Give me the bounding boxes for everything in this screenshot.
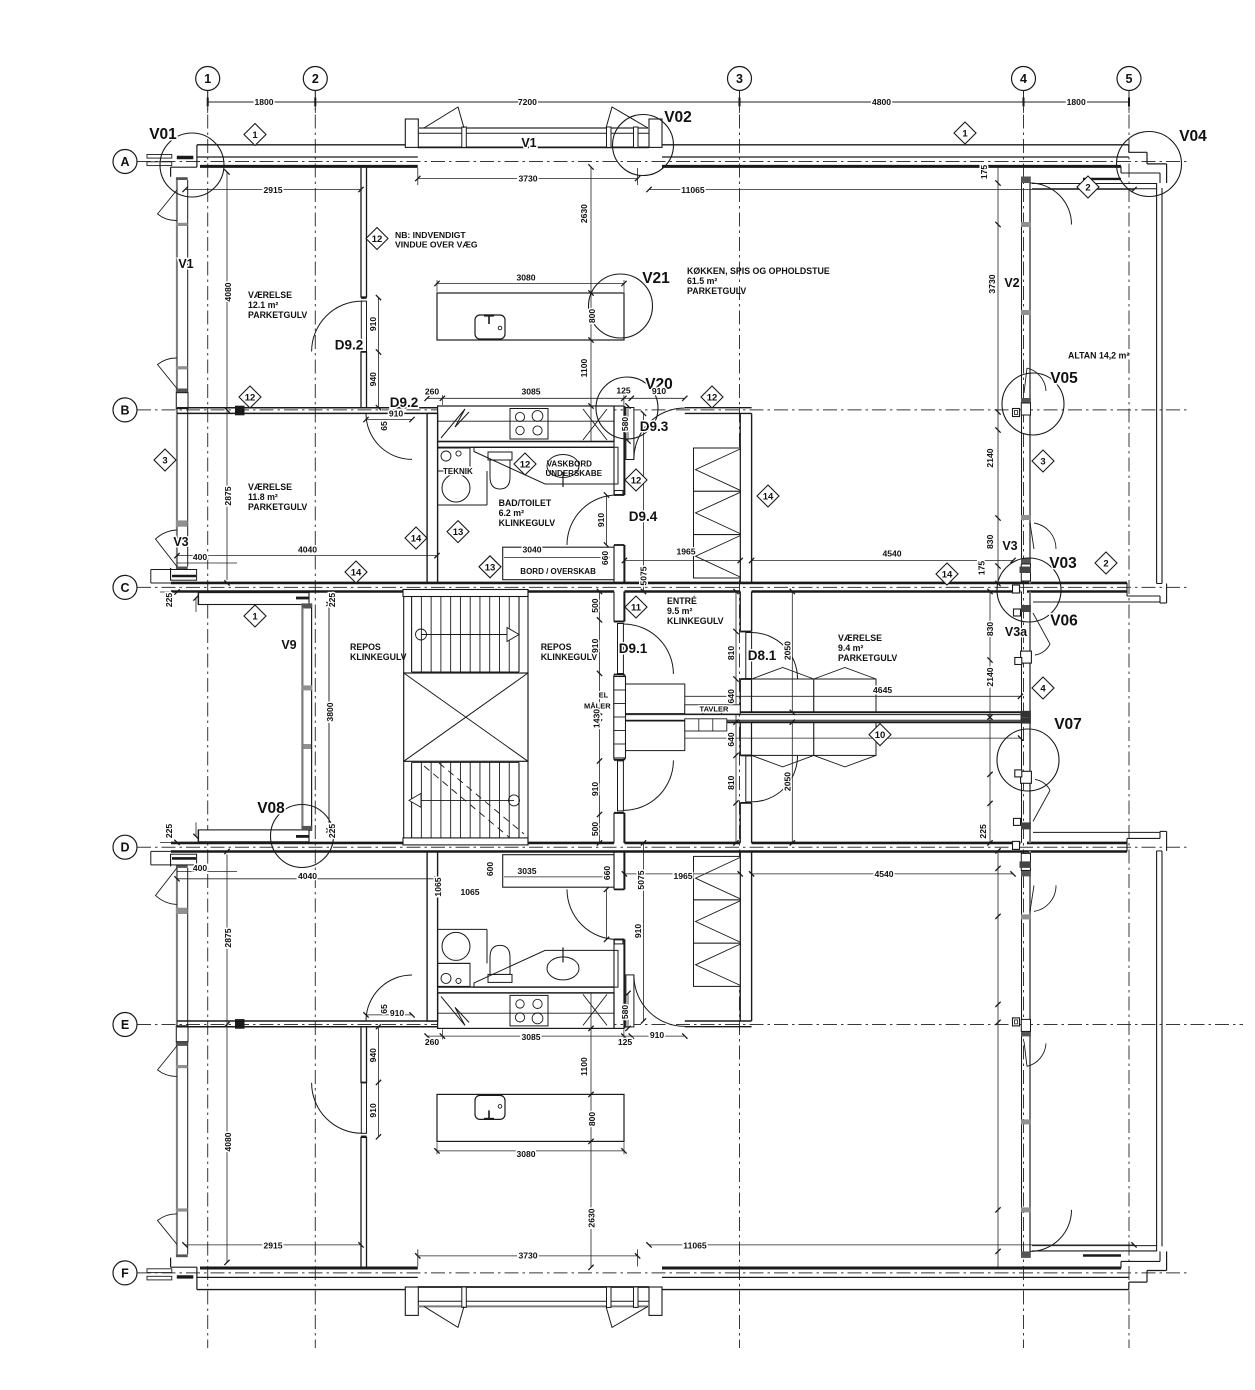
svg-text:REPOS: REPOS — [350, 642, 381, 652]
svg-text:14: 14 — [942, 570, 953, 581]
svg-text:4: 4 — [1020, 72, 1027, 86]
svg-text:12: 12 — [707, 393, 718, 404]
svg-text:D8.1: D8.1 — [748, 648, 777, 663]
svg-text:3085: 3085 — [521, 387, 540, 397]
svg-text:175: 175 — [979, 165, 989, 180]
svg-text:5: 5 — [1126, 72, 1133, 86]
svg-text:V3: V3 — [173, 535, 188, 549]
svg-text:3035: 3035 — [517, 866, 536, 876]
svg-text:KLINKEGULV: KLINKEGULV — [350, 652, 407, 662]
svg-text:2915: 2915 — [263, 185, 282, 195]
svg-text:V9: V9 — [281, 638, 296, 652]
svg-text:500: 500 — [590, 822, 600, 837]
svg-text:VINDUE OVER VÆG: VINDUE OVER VÆG — [395, 240, 478, 250]
svg-text:REPOS: REPOS — [541, 642, 572, 652]
svg-text:V1: V1 — [178, 257, 193, 271]
svg-text:580: 580 — [620, 1005, 630, 1020]
svg-text:3800: 3800 — [325, 702, 335, 721]
svg-text:1065: 1065 — [460, 887, 479, 897]
svg-text:11: 11 — [631, 603, 642, 614]
svg-text:6.2 m²: 6.2 m² — [499, 508, 524, 518]
svg-text:660: 660 — [600, 551, 610, 566]
svg-text:PARKETGULV: PARKETGULV — [838, 653, 897, 663]
svg-text:1: 1 — [204, 72, 211, 86]
svg-text:VÆRELSE: VÆRELSE — [248, 482, 292, 492]
svg-text:1965: 1965 — [676, 547, 695, 557]
svg-text:1430: 1430 — [592, 709, 602, 728]
svg-text:V1: V1 — [521, 136, 536, 150]
svg-text:3: 3 — [736, 72, 743, 86]
svg-text:V06: V06 — [1050, 613, 1078, 630]
svg-text:225: 225 — [327, 824, 337, 839]
svg-text:C: C — [120, 581, 129, 595]
svg-text:910: 910 — [652, 386, 667, 396]
svg-text:V08: V08 — [257, 800, 285, 817]
svg-text:14: 14 — [763, 492, 774, 503]
svg-text:1: 1 — [252, 612, 258, 623]
svg-text:E: E — [121, 1018, 129, 1032]
svg-text:4080: 4080 — [223, 1132, 233, 1151]
svg-text:910: 910 — [633, 924, 643, 939]
svg-text:11065: 11065 — [681, 185, 705, 195]
svg-text:4: 4 — [1040, 684, 1046, 695]
svg-text:B: B — [120, 403, 129, 417]
svg-text:1: 1 — [252, 130, 258, 141]
svg-text:2875: 2875 — [223, 486, 233, 505]
svg-text:65: 65 — [379, 421, 389, 431]
svg-text:D9.2: D9.2 — [335, 338, 364, 353]
svg-text:V02: V02 — [664, 109, 692, 126]
svg-text:3: 3 — [162, 456, 167, 467]
svg-text:3730: 3730 — [518, 1251, 537, 1261]
svg-text:V21: V21 — [642, 270, 670, 287]
svg-text:2875: 2875 — [223, 928, 233, 947]
svg-text:225: 225 — [978, 824, 988, 839]
svg-text:VÆRELSE: VÆRELSE — [838, 633, 882, 643]
svg-text:NB: INDVENDIGT: NB: INDVENDIGT — [395, 230, 466, 240]
svg-text:5075: 5075 — [636, 870, 646, 889]
svg-text:12: 12 — [245, 393, 256, 404]
svg-text:910: 910 — [650, 1030, 665, 1040]
svg-text:600: 600 — [485, 862, 495, 877]
svg-text:225: 225 — [327, 593, 337, 608]
svg-text:V04: V04 — [1179, 128, 1207, 145]
svg-text:3085: 3085 — [521, 1032, 540, 1042]
svg-text:640: 640 — [726, 689, 736, 704]
svg-text:13: 13 — [485, 562, 496, 573]
svg-text:4540: 4540 — [874, 869, 893, 879]
svg-text:F: F — [121, 1266, 129, 1280]
svg-text:V3: V3 — [1002, 539, 1017, 553]
svg-text:4800: 4800 — [872, 97, 891, 107]
svg-text:910: 910 — [368, 1103, 378, 1118]
svg-text:VASKBORD: VASKBORD — [547, 460, 592, 469]
svg-text:500: 500 — [590, 598, 600, 613]
svg-text:KØKKEN, SPIS OG OPHOLDSTUE: KØKKEN, SPIS OG OPHOLDSTUE — [687, 266, 830, 276]
svg-text:12: 12 — [520, 460, 531, 471]
svg-text:225: 225 — [164, 824, 174, 839]
svg-text:1100: 1100 — [579, 358, 589, 377]
svg-text:225: 225 — [164, 593, 174, 608]
svg-text:800: 800 — [587, 1112, 597, 1127]
svg-text:260: 260 — [425, 387, 440, 397]
svg-text:910: 910 — [390, 1008, 405, 1018]
svg-text:400: 400 — [193, 552, 208, 562]
svg-text:1065: 1065 — [433, 877, 443, 896]
svg-text:2: 2 — [312, 72, 319, 86]
svg-text:3080: 3080 — [516, 1149, 535, 1159]
svg-text:260: 260 — [425, 1037, 440, 1047]
svg-text:3040: 3040 — [522, 545, 541, 555]
svg-text:PARKETGULV: PARKETGULV — [687, 286, 746, 296]
svg-text:2140: 2140 — [985, 667, 995, 686]
svg-text:PARKETGULV: PARKETGULV — [248, 310, 307, 320]
svg-text:TEKNIK: TEKNIK — [443, 467, 473, 476]
svg-text:2630: 2630 — [579, 204, 589, 223]
svg-text:1: 1 — [962, 129, 968, 140]
svg-text:9.4 m²: 9.4 m² — [838, 643, 863, 653]
svg-text:14: 14 — [411, 534, 422, 545]
svg-text:175: 175 — [977, 561, 987, 576]
svg-text:1800: 1800 — [254, 97, 273, 107]
svg-text:2630: 2630 — [587, 1208, 597, 1227]
svg-text:10: 10 — [875, 730, 886, 741]
svg-text:400: 400 — [193, 863, 208, 873]
svg-text:13: 13 — [453, 527, 464, 538]
svg-text:PARKETGULV: PARKETGULV — [248, 502, 307, 512]
svg-text:ENTRÉ: ENTRÉ — [667, 596, 697, 606]
svg-text:D9.1: D9.1 — [619, 641, 648, 656]
svg-text:4540: 4540 — [882, 549, 901, 559]
svg-text:V3a: V3a — [1005, 625, 1028, 639]
svg-text:UNDERSKABE: UNDERSKABE — [546, 469, 603, 478]
svg-text:11065: 11065 — [683, 1241, 707, 1251]
svg-text:3730: 3730 — [987, 274, 997, 293]
svg-text:125: 125 — [618, 1037, 633, 1047]
svg-text:12.1 m²: 12.1 m² — [248, 300, 278, 310]
svg-text:ALTAN 14,2 m²: ALTAN 14,2 m² — [1068, 351, 1129, 361]
svg-text:810: 810 — [726, 646, 736, 661]
svg-text:12: 12 — [631, 476, 642, 487]
svg-text:TAVLER: TAVLER — [700, 705, 729, 714]
svg-text:4080: 4080 — [223, 282, 233, 301]
svg-text:BAD/TOILET: BAD/TOILET — [499, 498, 552, 508]
svg-text:830: 830 — [985, 534, 995, 549]
svg-text:9.5 m²: 9.5 m² — [667, 606, 692, 616]
svg-text:2915: 2915 — [263, 1241, 282, 1251]
svg-text:EL: EL — [599, 691, 609, 700]
svg-text:5075: 5075 — [639, 566, 649, 585]
svg-text:61.5 m²: 61.5 m² — [687, 276, 717, 286]
svg-text:1800: 1800 — [1067, 97, 1086, 107]
svg-text:940: 940 — [368, 372, 378, 387]
svg-text:830: 830 — [985, 622, 995, 637]
svg-text:2: 2 — [1085, 183, 1090, 194]
svg-text:1965: 1965 — [673, 871, 692, 881]
svg-text:V2: V2 — [1004, 276, 1019, 290]
svg-text:910: 910 — [596, 513, 606, 528]
svg-text:KLINKEGULV: KLINKEGULV — [541, 652, 598, 662]
svg-text:V03: V03 — [1049, 555, 1077, 572]
svg-text:12: 12 — [372, 234, 383, 245]
svg-text:1100: 1100 — [579, 1057, 589, 1076]
svg-text:14: 14 — [351, 568, 362, 579]
svg-text:910: 910 — [389, 409, 404, 419]
svg-text:V07: V07 — [1054, 716, 1082, 733]
svg-text:910: 910 — [590, 638, 600, 653]
svg-text:640: 640 — [726, 732, 736, 747]
svg-text:3: 3 — [1040, 457, 1045, 468]
svg-text:3080: 3080 — [516, 273, 535, 283]
svg-text:580: 580 — [620, 417, 630, 432]
svg-text:V01: V01 — [149, 126, 177, 143]
svg-text:2050: 2050 — [783, 772, 793, 791]
svg-text:A: A — [120, 155, 129, 169]
svg-text:VÆRELSE: VÆRELSE — [248, 290, 292, 300]
svg-text:KLINKEGULV: KLINKEGULV — [499, 518, 556, 528]
svg-text:2: 2 — [1103, 559, 1108, 570]
svg-text:3730: 3730 — [518, 174, 537, 184]
svg-text:125: 125 — [616, 386, 631, 396]
svg-text:D: D — [120, 841, 129, 855]
svg-text:4040: 4040 — [298, 871, 317, 881]
svg-text:4040: 4040 — [298, 545, 317, 555]
svg-text:4645: 4645 — [873, 685, 892, 695]
svg-text:7200: 7200 — [518, 97, 537, 107]
svg-text:810: 810 — [726, 775, 736, 790]
svg-text:D9.3: D9.3 — [640, 419, 669, 434]
svg-text:KLINKEGULV: KLINKEGULV — [667, 616, 724, 626]
svg-text:910: 910 — [590, 782, 600, 797]
svg-text:BORD / OVERSKAB: BORD / OVERSKAB — [520, 567, 596, 576]
svg-text:940: 940 — [368, 1048, 378, 1063]
svg-text:D9.4: D9.4 — [629, 509, 658, 524]
svg-text:V05: V05 — [1050, 370, 1078, 387]
svg-text:910: 910 — [368, 317, 378, 332]
svg-text:800: 800 — [587, 309, 597, 324]
svg-text:65: 65 — [379, 1004, 389, 1014]
svg-text:2050: 2050 — [783, 641, 793, 660]
svg-text:660: 660 — [602, 866, 612, 881]
svg-text:2140: 2140 — [985, 448, 995, 467]
svg-text:11.8 m²: 11.8 m² — [248, 492, 278, 502]
